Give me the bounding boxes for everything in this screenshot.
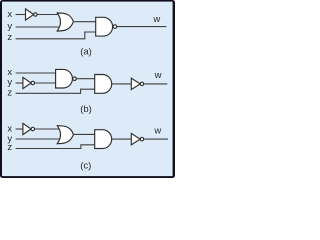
svg-text:z: z <box>7 32 12 43</box>
svg-text:(a): (a) <box>80 47 92 58</box>
svg-text:(c): (c) <box>80 161 91 172</box>
svg-text:w: w <box>153 126 161 137</box>
svg-text:y: y <box>7 77 12 88</box>
svg-text:(b): (b) <box>80 104 92 115</box>
svg-text:w: w <box>154 70 162 81</box>
svg-text:w: w <box>152 14 160 25</box>
svg-text:x: x <box>7 9 12 20</box>
svg-text:z: z <box>7 142 12 153</box>
svg-text:y: y <box>7 21 12 32</box>
svg-text:z: z <box>7 87 12 98</box>
